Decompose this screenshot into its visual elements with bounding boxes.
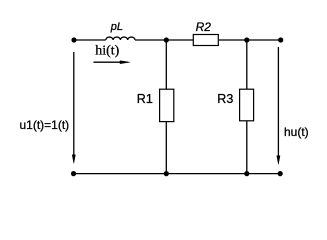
svg-text:hi(t): hi(t) [95, 43, 119, 58]
svg-text:pL: pL [110, 21, 123, 33]
svg-text:hu(t): hu(t) [284, 125, 309, 139]
svg-text:u1(t)=1(t): u1(t)=1(t) [20, 118, 70, 132]
svg-text:R3: R3 [217, 92, 233, 106]
svg-text:R1: R1 [137, 92, 153, 106]
svg-text:R2: R2 [196, 20, 212, 34]
